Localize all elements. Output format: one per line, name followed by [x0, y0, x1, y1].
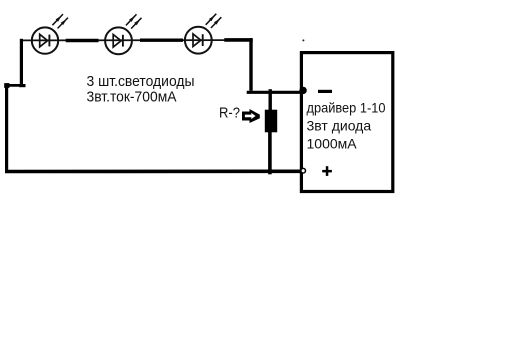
svg-text:3вт.ток-700мА: 3вт.ток-700мА: [87, 88, 177, 105]
wire right vertical drop: [249, 38, 252, 91]
callout block arrow pointing at resistor: [242, 109, 260, 123]
node junction dot at driver minus input: [299, 87, 306, 94]
svg-text:драйвер 1-10: драйвер 1-10: [307, 100, 386, 116]
LED D2: [105, 14, 141, 54]
terminal open circle at driver plus input: [301, 168, 306, 173]
stray ink speck: [302, 39, 304, 41]
LED D3: [185, 14, 221, 54]
LED D1: [32, 14, 68, 54]
svg-text:3 шт.светодиоды: 3 шт.светодиоды: [87, 73, 195, 90]
minus terminal label: [318, 90, 332, 93]
wire left vertical upper: [20, 39, 23, 87]
wire segment LED3 to top-right corner: [224, 38, 252, 42]
wire top rail thin lead through LEDs: [23, 39, 226, 41]
wire left jog: [5, 84, 24, 87]
svg-text:1000мА: 1000мА: [307, 136, 358, 152]
wire segment LED1-LED2: [66, 39, 99, 42]
plus terminal label: [322, 166, 332, 176]
resistor R lower lead: [268, 132, 272, 174]
wire left vertical lower: [5, 84, 8, 173]
wire bottom rail: [5, 170, 302, 174]
resistor R body: [265, 110, 277, 133]
wire from corner to driver minus input: [247, 91, 302, 94]
svg-text:R-?: R-?: [219, 104, 240, 121]
wire segment LED2-LED3: [140, 39, 183, 42]
resistor R upper lead: [269, 89, 272, 111]
svg-text:3вт диода: 3вт диода: [307, 118, 372, 134]
driver box U1: [301, 53, 392, 192]
